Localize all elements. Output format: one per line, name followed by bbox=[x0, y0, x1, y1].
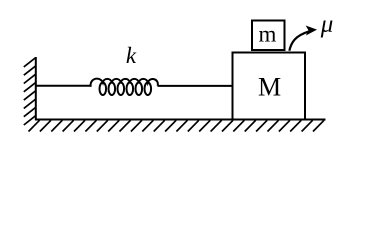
wall hatching bbox=[24, 58, 36, 67]
svg-text:m: m bbox=[259, 22, 277, 47]
block M bbox=[233, 53, 306, 120]
spring k coil loops bbox=[100, 82, 107, 95]
svg-text:μ: μ bbox=[320, 11, 334, 38]
spring k coil top bbox=[90, 79, 158, 86]
wire wall to spring bbox=[36, 85, 91, 87]
arrow mu head bbox=[307, 26, 316, 34]
ground bbox=[35, 119, 326, 121]
svg-text:k: k bbox=[126, 43, 137, 68]
wall bbox=[35, 57, 37, 120]
arrow mu curved shaft bbox=[289, 31, 309, 50]
svg-text:M: M bbox=[258, 73, 281, 102]
ground hatching bbox=[29, 120, 40, 131]
block m bbox=[252, 21, 285, 51]
wire spring to block M bbox=[158, 85, 234, 87]
